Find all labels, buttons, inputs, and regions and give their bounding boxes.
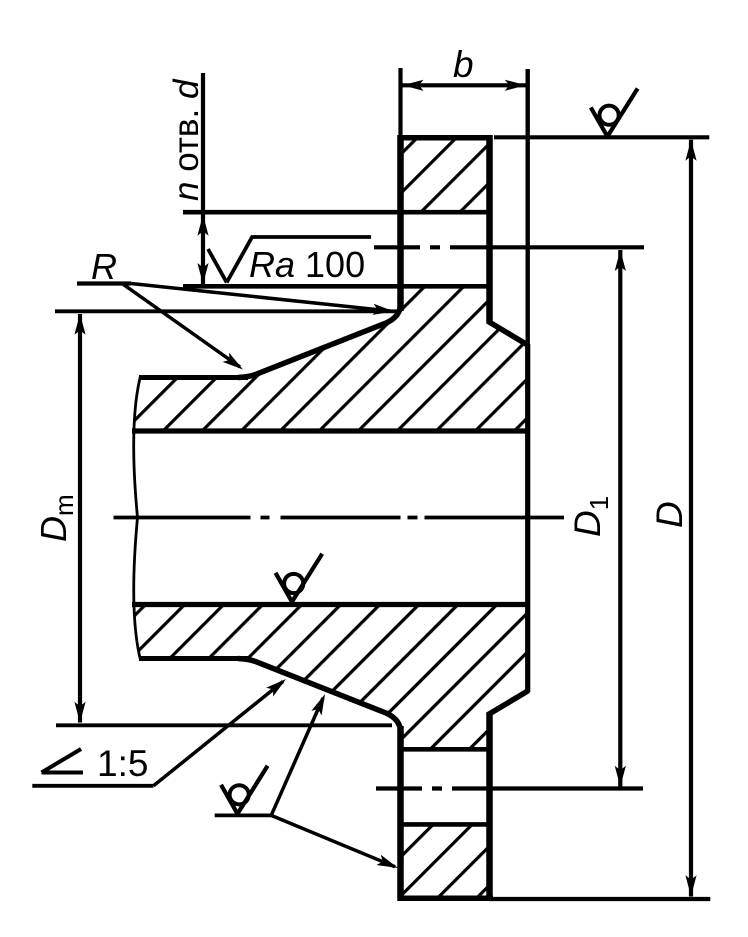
bolt hole top upper line bbox=[183, 210, 490, 215]
centerline main axis bbox=[114, 516, 565, 520]
roughness symbol bottom baseline bbox=[215, 814, 272, 818]
svg-text:R: R bbox=[91, 246, 117, 287]
roughness symbol top right bbox=[591, 89, 638, 137]
hatch lower flange ring bbox=[401, 824, 490, 898]
svg-text:b: b bbox=[453, 44, 474, 85]
extension line b left bbox=[398, 68, 402, 138]
dimension b line bbox=[402, 83, 526, 87]
roughness symbol Ra100 bbox=[208, 237, 371, 283]
bore bottom line bbox=[132, 602, 528, 607]
bolt hole top lower line bbox=[183, 284, 490, 289]
hatch upper hub and neck bbox=[133, 287, 528, 431]
dimension D line bbox=[689, 140, 693, 897]
svg-text:n отв. d: n отв. d bbox=[167, 78, 206, 201]
arrow Dm down bbox=[74, 702, 85, 723]
bottom symbol leader down bbox=[271, 815, 395, 866]
arrow D1 down bbox=[615, 766, 626, 787]
flange top face bbox=[398, 135, 493, 141]
arrow R leader 1 bbox=[373, 304, 395, 317]
flange right face lower bbox=[486, 713, 493, 901]
dimension n otv d leader line bbox=[201, 73, 205, 285]
chamfer raised face top bbox=[488, 321, 529, 346]
arrow 1:5 leader bbox=[266, 675, 289, 697]
dimension Dm extension bottom bbox=[56, 723, 392, 727]
arrow n otv d up bbox=[197, 215, 208, 236]
extension line b right upper bbox=[526, 69, 530, 345]
arrow D down bbox=[685, 875, 696, 896]
arrow b left bbox=[403, 80, 424, 91]
taper top with fillet bbox=[238, 304, 401, 378]
bore top line bbox=[132, 428, 528, 433]
R leader 1 bbox=[131, 284, 390, 312]
centerline bolt circle bottom bbox=[376, 786, 643, 790]
1:5 underline bbox=[32, 784, 153, 788]
weld end bottom line bbox=[139, 656, 248, 661]
roughness symbol bottom bbox=[221, 766, 268, 814]
taper symbol 1:5 bbox=[42, 749, 84, 773]
flange left face lower bbox=[397, 726, 404, 901]
arrow R leader 2 bbox=[223, 353, 247, 374]
svg-text:1:5: 1:5 bbox=[97, 743, 148, 784]
flange left face upper bbox=[397, 135, 404, 311]
extension line D top bbox=[494, 135, 709, 139]
arrow b right bbox=[505, 80, 526, 91]
arrow bottom symbol leader down bbox=[376, 855, 400, 873]
chamfer raised face bottom bbox=[488, 691, 529, 716]
raised face right bbox=[525, 344, 530, 692]
bottom symbol leader up bbox=[271, 698, 323, 815]
extension line D bottom bbox=[489, 897, 710, 901]
flange bottom face bbox=[398, 895, 493, 901]
roughness symbol middle bbox=[276, 554, 323, 602]
arrow D up bbox=[685, 140, 696, 161]
R leader 2 bbox=[122, 284, 240, 368]
bolt hole bottom lower line bbox=[401, 822, 490, 827]
hatch upper flange ring bbox=[401, 138, 490, 212]
dimension Dm line bbox=[78, 314, 82, 723]
R underline bbox=[77, 281, 131, 285]
dimension Dm extension top bbox=[55, 309, 399, 313]
taper bottom with fillet bbox=[238, 659, 401, 733]
arrow bottom symbol leader up bbox=[311, 692, 330, 716]
hatch lower hub and neck bbox=[133, 605, 528, 750]
flange right face upper bbox=[486, 135, 493, 323]
weld end top line bbox=[139, 375, 248, 380]
arrow D1 up bbox=[615, 250, 626, 271]
1:5 leader bbox=[154, 682, 284, 786]
svg-text:D: D bbox=[649, 501, 690, 528]
break line bbox=[134, 376, 141, 660]
centerline bolt circle top bbox=[374, 245, 644, 249]
dimension D1 line bbox=[618, 250, 622, 787]
bolt hole bottom upper line bbox=[401, 747, 490, 752]
svg-text:Ra 100: Ra 100 bbox=[249, 244, 365, 285]
arrow n otv d down bbox=[197, 263, 208, 284]
arrow Dm up bbox=[74, 314, 85, 335]
